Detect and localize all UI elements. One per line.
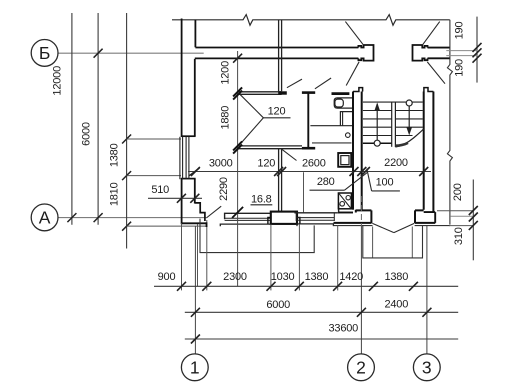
svg-text:2400: 2400 xyxy=(384,299,408,311)
window W3 glazing lines xyxy=(296,217,334,219)
window W2 top face xyxy=(225,213,271,219)
top cut line xyxy=(172,15,450,26)
tick window-bottom on 1380 line xyxy=(122,171,131,180)
svg-text:100: 100 xyxy=(376,176,394,188)
svg-text:2200: 2200 xyxy=(384,157,408,169)
extension line window bottom xyxy=(127,175,181,177)
stair right wall xyxy=(423,92,425,210)
window W3 top face xyxy=(294,212,337,214)
extension line x303 xyxy=(303,172,305,212)
stove burner circle 1 xyxy=(346,196,350,200)
left wall inner face below window xyxy=(194,179,196,204)
vent duct box xyxy=(338,153,351,167)
kitchen sink unit xyxy=(334,98,352,108)
extension line door jamb left xyxy=(206,220,208,290)
window W2 glazing lines xyxy=(225,217,271,219)
leader 100 shelf xyxy=(372,190,400,192)
left porch outline xyxy=(200,219,314,253)
svg-text:1380: 1380 xyxy=(384,271,408,283)
tick A on 6000 line xyxy=(94,213,103,222)
tick wall y212 xyxy=(232,207,243,218)
stair down arrow start circle xyxy=(406,100,412,106)
extension line pier left xyxy=(270,224,272,290)
row B ticks xyxy=(191,308,200,317)
svg-text:1380: 1380 xyxy=(109,143,121,167)
svg-text:6000: 6000 xyxy=(81,122,93,146)
svg-text:6000: 6000 xyxy=(266,299,290,311)
right flight treads xyxy=(395,110,422,112)
tick at stair wall right xyxy=(419,167,428,176)
window W3 jamb steps xyxy=(295,213,297,221)
axis circle A xyxy=(31,204,58,231)
axis circle B xyxy=(31,40,58,67)
stair left wall xyxy=(352,92,354,210)
pier between windows xyxy=(271,212,297,224)
left flight bottom edge xyxy=(363,142,392,144)
partition room2 bottom 120 xyxy=(238,145,302,147)
axis line A horizontal xyxy=(58,217,206,219)
svg-text:1880: 1880 xyxy=(220,106,232,130)
window W1 sill outer lines xyxy=(179,137,181,179)
stair right wall top tab xyxy=(424,88,434,92)
tick A on 12000 line xyxy=(67,213,76,222)
bottom wall right of entrance xyxy=(415,222,435,224)
pier right tab xyxy=(297,218,300,224)
svg-text:Б: Б xyxy=(39,43,50,63)
dimension line 1380/1810 vertical xyxy=(126,13,128,249)
wall B bottom face left part xyxy=(195,57,359,59)
leader 120 shelf xyxy=(263,117,290,119)
svg-text:16.8: 16.8 xyxy=(251,194,272,206)
svg-text:1380: 1380 xyxy=(305,271,329,283)
extra extension line near axis1 xyxy=(197,224,199,286)
dim 510 line xyxy=(148,197,202,199)
left wall inner corner steps xyxy=(195,203,205,221)
double tick at partition xyxy=(274,167,283,176)
leader 120 arm upper xyxy=(240,94,264,118)
kitchen door pier I-element xyxy=(302,91,315,94)
tick 1200 top xyxy=(233,54,242,63)
stair central divider xyxy=(391,102,393,147)
leader 100 diagonal xyxy=(367,169,372,191)
dim line vertical x237.6 xyxy=(237,51,239,286)
kitchen stove cabinet xyxy=(340,112,352,126)
row A ticks xyxy=(177,282,186,291)
svg-text:2300: 2300 xyxy=(223,271,247,283)
right dim 190 line xyxy=(476,17,478,83)
extension line window3 jamb xyxy=(337,225,339,290)
left exterior wall outer face upper xyxy=(181,19,183,138)
triple tick at stair wall left xyxy=(350,167,359,176)
svg-text:А: А xyxy=(39,208,51,228)
stove diagonal xyxy=(339,194,350,208)
upper band partition 120 xyxy=(278,20,280,91)
door jamb bar at partition corner xyxy=(278,91,287,94)
ticks 200/310 xyxy=(469,206,478,215)
right wall corner cap xyxy=(424,212,436,223)
door jamb pier right of top opening xyxy=(413,45,428,61)
tick at left wall inner xyxy=(191,167,200,176)
stair left T-base xyxy=(356,210,372,224)
extension line window top xyxy=(127,138,181,140)
dimension line 6000 vertical xyxy=(97,13,99,225)
bottom wall outer corner xyxy=(182,222,207,224)
gray ext lines 190 xyxy=(446,50,477,52)
partition room1/room2 horizontal 120 xyxy=(238,91,281,93)
bottom wall under kitchen xyxy=(334,222,372,224)
tick B on 6000 line xyxy=(94,49,103,58)
bottom wall top face under stove xyxy=(339,212,353,214)
flight break curve xyxy=(395,129,423,147)
wall B bottom face right part xyxy=(428,57,450,59)
svg-text:120: 120 xyxy=(257,158,275,170)
svg-text:3: 3 xyxy=(422,358,432,378)
tick 510 left xyxy=(177,194,186,203)
svg-text:12000: 12000 xyxy=(52,66,64,96)
dim line row interior y171.5 xyxy=(188,171,431,173)
dim row B line xyxy=(185,311,458,313)
window W1 frame double line xyxy=(185,137,187,179)
svg-text:1420: 1420 xyxy=(339,271,363,283)
stair up arrow shaft xyxy=(376,104,378,140)
ticks 190 xyxy=(473,43,482,52)
left flight treads xyxy=(363,110,392,112)
door leaf stair-to-kitchen xyxy=(346,62,359,86)
svg-text:1200: 1200 xyxy=(220,61,232,85)
svg-text:1: 1 xyxy=(190,358,200,378)
left wall inner face upper band xyxy=(194,20,196,48)
axis circle 1 xyxy=(181,354,208,381)
dimension line 12000 vertical xyxy=(71,13,73,225)
vent duct inner xyxy=(341,156,349,165)
leader diagonal to 2600 xyxy=(281,149,296,161)
stair up arrow start circle xyxy=(374,140,380,146)
entrance door V swing left xyxy=(372,223,394,232)
svg-text:200: 200 xyxy=(452,183,464,201)
svg-text:3000: 3000 xyxy=(209,158,233,170)
svg-text:2600: 2600 xyxy=(302,158,326,170)
tick window-top on 1380 line xyxy=(122,135,131,144)
opening splay line upper-left xyxy=(345,22,363,45)
door jamb ext line right in porch xyxy=(411,227,413,258)
svg-text:190: 190 xyxy=(453,59,465,77)
right dim 200/310 line xyxy=(472,180,474,261)
svg-text:2: 2 xyxy=(356,358,366,378)
window W2 sill line xyxy=(220,224,270,226)
right edge line xyxy=(447,20,452,225)
svg-text:2290: 2290 xyxy=(218,177,230,201)
kitchen north partition segment at wall xyxy=(332,92,350,95)
axis circle 3 xyxy=(413,354,440,381)
extension line left wall outer xyxy=(181,223,183,290)
stair down arrowhead xyxy=(406,127,412,135)
dim row C line xyxy=(185,338,458,340)
stair left wall top tab xyxy=(353,88,363,92)
door jamb end cap xyxy=(206,222,208,227)
break curve shading xyxy=(395,142,408,147)
partition 120 between room 16.8 and hall (lower segment) xyxy=(278,149,280,212)
tick wall-bottom on 1810 line xyxy=(122,222,131,231)
entrance door jamb right xyxy=(415,210,424,223)
right porch outline xyxy=(363,225,423,258)
leader 280 shelf xyxy=(310,189,345,191)
extension line pier right xyxy=(298,224,300,290)
window W3 sill line xyxy=(297,224,333,226)
opening splay line upper-right xyxy=(422,22,439,45)
door leaf kitchen right xyxy=(315,78,331,89)
axis 3 extension xyxy=(426,226,428,354)
svg-text:33600: 33600 xyxy=(329,322,359,334)
upper landing edge xyxy=(363,101,423,103)
stair up arrowhead xyxy=(374,102,380,110)
row C tick xyxy=(191,335,200,344)
door leaf kitchen left xyxy=(287,79,302,88)
double tick partition y93 xyxy=(233,87,242,96)
svg-text:120: 120 xyxy=(268,105,286,117)
area label underline xyxy=(251,204,273,206)
kitchen low shelf line xyxy=(312,142,352,144)
axis 1 extension xyxy=(194,226,196,354)
axis line B horizontal xyxy=(58,52,204,54)
svg-text:900: 900 xyxy=(158,271,176,283)
window W1 top reveal xyxy=(181,135,196,137)
door leaf bottom-left xyxy=(206,206,221,218)
stair down arrow shaft xyxy=(408,106,410,131)
kitchen counter front edge xyxy=(310,125,353,127)
door jamb pier left of top opening xyxy=(358,45,373,61)
axis 2 extension xyxy=(360,196,362,226)
stove burner circle 2 xyxy=(340,202,345,207)
door leaf stair-to-right-room xyxy=(427,62,445,84)
leader 280 diagonal xyxy=(345,172,368,190)
left exterior wall outer face lower xyxy=(181,178,183,224)
wall B top face left part xyxy=(195,47,358,49)
wall B top face right part xyxy=(428,47,450,49)
svg-text:1810: 1810 xyxy=(109,182,121,206)
sink bowl xyxy=(335,99,343,107)
ext lines 200/310 xyxy=(437,210,474,212)
gas stove square xyxy=(338,193,351,209)
svg-text:280: 280 xyxy=(317,176,335,188)
extension line wall bottom xyxy=(127,225,208,227)
window W1 bottom reveal xyxy=(181,178,196,180)
pier left tab xyxy=(268,218,271,224)
svg-text:1030: 1030 xyxy=(271,271,295,283)
axis circle 2 xyxy=(348,354,375,381)
entrance door V swing right xyxy=(394,223,414,232)
left wall inner face room xyxy=(194,59,196,136)
tick on window frame xyxy=(189,168,200,176)
double tick partition y147 xyxy=(233,141,242,150)
svg-text:510: 510 xyxy=(151,184,169,196)
dim row A line xyxy=(154,285,458,287)
svg-text:310: 310 xyxy=(453,227,465,245)
leader 120 arm lower xyxy=(240,118,264,145)
wall corner at kitchen window xyxy=(337,204,340,213)
door jamb ext line left in porch xyxy=(372,227,374,258)
svg-text:190: 190 xyxy=(453,22,465,40)
tick 510 right xyxy=(190,194,199,203)
gas riser circle xyxy=(346,133,351,138)
